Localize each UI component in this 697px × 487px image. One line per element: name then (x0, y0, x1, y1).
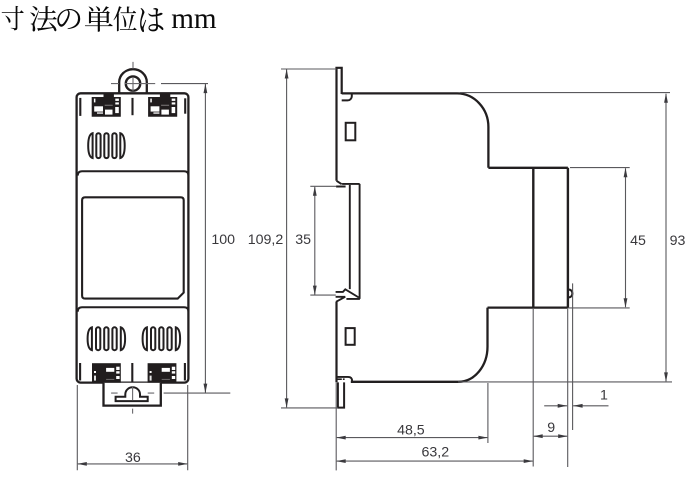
ext line 63.2 right (532, 308, 534, 467)
title 寸法の単位は (2, 6, 164, 32)
side bottom step (337, 377, 353, 382)
side top ledge (488, 167, 568, 169)
side tab hook (342, 93, 352, 100)
svg-text:48,5: 48,5 (397, 423, 425, 439)
ext lines 36 (77, 385, 187, 470)
ext line 100 bottom (164, 392, 231, 394)
ext line 1 right (572, 283, 574, 430)
svg-text:109,2: 109,2 (248, 232, 284, 248)
bottom terminal block right (148, 363, 177, 383)
dim labels (125, 232, 685, 466)
dim 48.5 (337, 437, 488, 439)
dim 9 (534, 435, 568, 437)
side lower front corner (351, 308, 488, 382)
side top edge and right curve (342, 93, 489, 167)
lower section top line (78, 307, 189, 311)
ext line 9 right (567, 309, 569, 467)
svg-text:100: 100 (211, 232, 235, 248)
ext line 100 top (161, 83, 208, 85)
ext line 48.5 right (487, 383, 489, 443)
ext line 93 bottom (458, 381, 672, 383)
step marks (337, 378, 342, 380)
ext lines 35 (310, 186, 336, 295)
din clip latch (116, 387, 148, 401)
ext line 109.2 bottom (281, 407, 338, 409)
front panel rect (533, 168, 568, 308)
side bottom ledge (488, 306, 568, 308)
ext line 93 top (460, 92, 670, 94)
front body outline (77, 93, 189, 382)
dim 63.2 (337, 460, 533, 462)
side back face upper (335, 94, 337, 181)
bottom vent slots group 2 (143, 327, 181, 350)
display window (82, 197, 184, 298)
dim 100 (204, 84, 206, 393)
bottom vent slots group 1 (88, 327, 126, 350)
svg-text:9: 9 (547, 420, 555, 436)
side back face lower (335, 302, 337, 383)
ext lines 45 (568, 168, 630, 308)
bottom terminal block left (92, 363, 121, 383)
din clip box (104, 383, 161, 406)
ext line 48.5 left (335, 382, 337, 470)
side bottom clip tab (338, 382, 344, 407)
svg-text:35: 35 (295, 232, 311, 248)
din slot walls (350, 184, 360, 299)
svg-text:93: 93 (670, 233, 686, 249)
dim 36 (78, 463, 187, 465)
svg-text:36: 36 (125, 450, 141, 466)
dim 93 (665, 94, 667, 382)
dimension arrowheads (77, 69, 668, 466)
din slot bottom latch (336, 289, 360, 302)
dim 35 (314, 187, 316, 295)
svg-text:1: 1 (600, 387, 608, 403)
dim 45 (625, 168, 627, 307)
din slot top notch (336, 181, 360, 187)
screw hole bottom (346, 328, 355, 345)
centerlines front (111, 62, 155, 414)
mounting hole circle (126, 76, 140, 90)
side top tab (337, 68, 342, 94)
panel hook bump (568, 290, 573, 298)
top terminal block right (148, 94, 177, 117)
dim 1 arrows (544, 405, 567, 407)
svg-text:63,2: 63,2 (421, 445, 449, 461)
terminal ticks (80, 98, 185, 382)
svg-text:45: 45 (630, 233, 646, 249)
screw hole top (346, 123, 356, 141)
dim 109.2 (286, 70, 288, 408)
top terminal block left (92, 94, 121, 117)
svg-text:mm: mm (171, 3, 217, 35)
ext line 109.2 top (281, 68, 336, 70)
mounting tab arch (119, 69, 147, 93)
panel section top line (78, 171, 189, 175)
top vent slots (88, 133, 125, 158)
